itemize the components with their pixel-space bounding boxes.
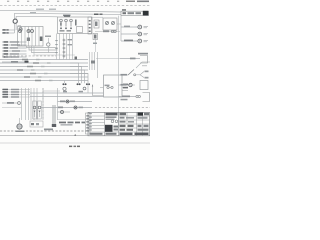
pin label b: [79, 91, 84, 93]
label above bus: [5, 56, 12, 57]
dashed boundary bottom left: [0, 130, 88, 132]
label LICENSE: [121, 84, 127, 86]
lamp at y34: [138, 32, 142, 36]
faint wire y107.5: [2, 107, 22, 109]
vertical rails: [21, 88, 23, 120]
diode D2: [66, 100, 69, 103]
diode slot D1: [33, 101, 36, 119]
pin label: [68, 39, 73, 40]
connector strip left of title block: [86, 113, 91, 134]
wire label: [130, 58, 136, 60]
label FUSE BLOCK: [94, 14, 99, 16]
lamp label: [124, 40, 133, 42]
wire bus L1: [0, 10, 121, 12]
switch blade: [128, 70, 134, 76]
wire across: [96, 58, 120, 60]
wire to tail: [120, 58, 140, 60]
tail lamp bracket: [140, 56, 148, 64]
rear connector box: [140, 81, 148, 90]
company name text: [106, 113, 118, 116]
lamp label 2: [124, 26, 130, 28]
footer page number: [69, 146, 72, 148]
diode slot D2: [38, 101, 41, 119]
wire drop to connector 2: [15, 16, 17, 19]
junction dark: [75, 57, 78, 61]
wire y119.5: [58, 119, 104, 121]
label BACK-UP: [121, 74, 128, 76]
license lamp: [129, 83, 132, 86]
wire row y33: [2, 32, 14, 34]
wire below connector 2: [15, 23, 17, 30]
harness routing corners: [27, 46, 58, 48]
switch pivot: [134, 74, 136, 76]
arrow label 1: [145, 71, 149, 73]
wire bus L3: [16, 15, 57, 18]
connector pair b: [138, 95, 140, 97]
connector pair a: [136, 95, 138, 97]
bus corner drops: [70, 63, 79, 83]
wire row y30: [2, 29, 15, 31]
fuse F3: [70, 19, 73, 22]
wire to lamp: [20, 26, 22, 28]
wire label: [122, 96, 130, 98]
frame bottom border: [0, 135, 150, 137]
bottom row text a: [90, 133, 103, 135]
frame top dashed border: [0, 4, 150, 6]
wire bundle arrow: [52, 105, 54, 124]
page edge shadow: [0, 142, 150, 144]
bundle label: [44, 129, 53, 131]
title block outline: [88, 112, 150, 136]
wire label: [30, 12, 36, 13]
pin ticks: [55, 40, 57, 41]
connector C11: [93, 34, 98, 40]
dark page ref block: [143, 11, 149, 16]
wire relay box to fuse box: [92, 16, 103, 18]
grommet connector E1: [13, 19, 17, 23]
pin label: [105, 85, 110, 87]
wire row y96.5: [119, 96, 136, 98]
rear window defogger symbol: [17, 124, 22, 129]
wire corner: [18, 25, 21, 27]
bottom caption text: [59, 122, 66, 124]
label 28: [91, 61, 95, 64]
long vertical: [97, 52, 99, 78]
wire to defogger: [19, 118, 21, 124]
lower left label rows: [2, 89, 30, 91]
breaker B1: [106, 22, 109, 25]
lamp at y27: [138, 25, 142, 29]
stamp circle 2: [115, 120, 118, 123]
fuse F2: [65, 19, 68, 22]
fusible link box: [103, 18, 117, 30]
fuse F1: [60, 19, 63, 22]
dense stamp block: [105, 125, 113, 132]
fold mark: [74, 134, 76, 136]
wire row y62: [2, 61, 28, 63]
stub to right: [117, 23, 121, 25]
slot mark: [27, 38, 30, 42]
wire label top 2: [49, 9, 56, 10]
right long vertical: [118, 16, 120, 128]
dashed box edge: [2, 55, 56, 57]
label y103: [7, 102, 14, 104]
body control module box: [104, 75, 123, 97]
dashed vertical: [42, 88, 44, 120]
wire into box: [100, 87, 104, 89]
diode D4: [61, 111, 64, 114]
pin label a: [63, 91, 67, 93]
small dark label: [122, 9, 126, 10]
pin circle: [107, 86, 109, 88]
connector C5: [47, 43, 50, 46]
lamp E2: [19, 28, 22, 31]
wire label: [103, 31, 109, 33]
left harness wire rows: [2, 41, 27, 43]
wire y103: [2, 102, 18, 104]
dashed boundary right: [95, 107, 150, 109]
relay R1: [75, 20, 77, 26]
connector pin strip: [88, 17, 92, 34]
label below: [121, 99, 128, 101]
relay R2 box: [77, 27, 83, 33]
wire to license lamp: [119, 84, 129, 86]
wire corner with arrow: [93, 85, 104, 96]
bottom row text d: [135, 133, 149, 135]
lamp L2: [27, 30, 30, 33]
lamp L1: [19, 30, 22, 33]
bottom row text b: [106, 133, 117, 135]
right vertical feed: [120, 16, 122, 41]
wire below connector: [13, 23, 15, 33]
wire bus L2: [15, 13, 122, 14]
bracket right of box: [122, 84, 128, 86]
label above C5: [45, 36, 51, 38]
drop from breaker box 2: [112, 30, 114, 32]
dark cell: [138, 113, 144, 116]
inline connector: [111, 30, 113, 32]
wire y107.5: [40, 107, 92, 109]
cross wire y96.5: [30, 96, 104, 98]
vertical below pair: [87, 85, 89, 93]
connector y103: [18, 102, 21, 105]
fuse body mark: [60, 23, 62, 26]
label TAIL LAMP: [138, 53, 148, 55]
drop to connector: [64, 81, 66, 84]
lamp at y41: [138, 39, 142, 43]
cell text 1: [120, 113, 127, 115]
page background: [0, 0, 150, 150]
small lamp center: [83, 87, 86, 90]
stamp circle 1: [111, 120, 114, 123]
drop from breaker box: [106, 30, 108, 32]
connector label dark: [25, 61, 29, 63]
dashed option box: [30, 121, 43, 127]
fuse rating text: [60, 30, 65, 31]
cross wire y93: [30, 92, 104, 94]
lamp below: [63, 87, 66, 90]
wire code label: [3, 29, 6, 30]
label under circle: [16, 131, 25, 133]
vertical below C11: [95, 40, 97, 53]
pin circle 2: [111, 86, 113, 88]
small label below C11: [93, 43, 97, 45]
connector pair at x78.5: [77, 83, 79, 85]
sub-harness verticals: [89, 52, 91, 70]
sheet number text top right: [126, 1, 135, 3]
slot dividers: [21, 27, 23, 47]
wire row y31.5: [95, 31, 120, 33]
bus text: [123, 12, 127, 14]
wire code label: [3, 32, 6, 33]
diode D3: [74, 106, 77, 109]
title block grid: [88, 115, 105, 117]
connector pair at x64.5: [62, 83, 64, 85]
bottom row text c: [120, 133, 133, 135]
fuse element dark: [40, 37, 43, 42]
breaker B2: [112, 22, 115, 25]
lamp L3: [31, 30, 34, 33]
frame top zone numbers: [7, 1, 9, 2]
relay box label: [64, 15, 70, 17]
pin label 2: [68, 44, 73, 45]
center bottom wires: [58, 101, 93, 103]
wire label: [11, 61, 18, 63]
wire drop to connector: [13, 13, 15, 19]
junction connector box: [18, 27, 44, 47]
connector pair at x88: [86, 83, 88, 85]
label ENGINE ROOM: [63, 15, 71, 17]
cross wire y91: [43, 90, 60, 92]
connector C10: [94, 20, 99, 28]
bus bar strip: [121, 11, 149, 15]
main harness bus rows: [0, 59, 88, 61]
relay box J/B outline: [58, 17, 93, 34]
wire label top 1: [36, 9, 44, 10]
wires below relay box: [56, 34, 58, 60]
arrow label 2: [145, 77, 149, 79]
